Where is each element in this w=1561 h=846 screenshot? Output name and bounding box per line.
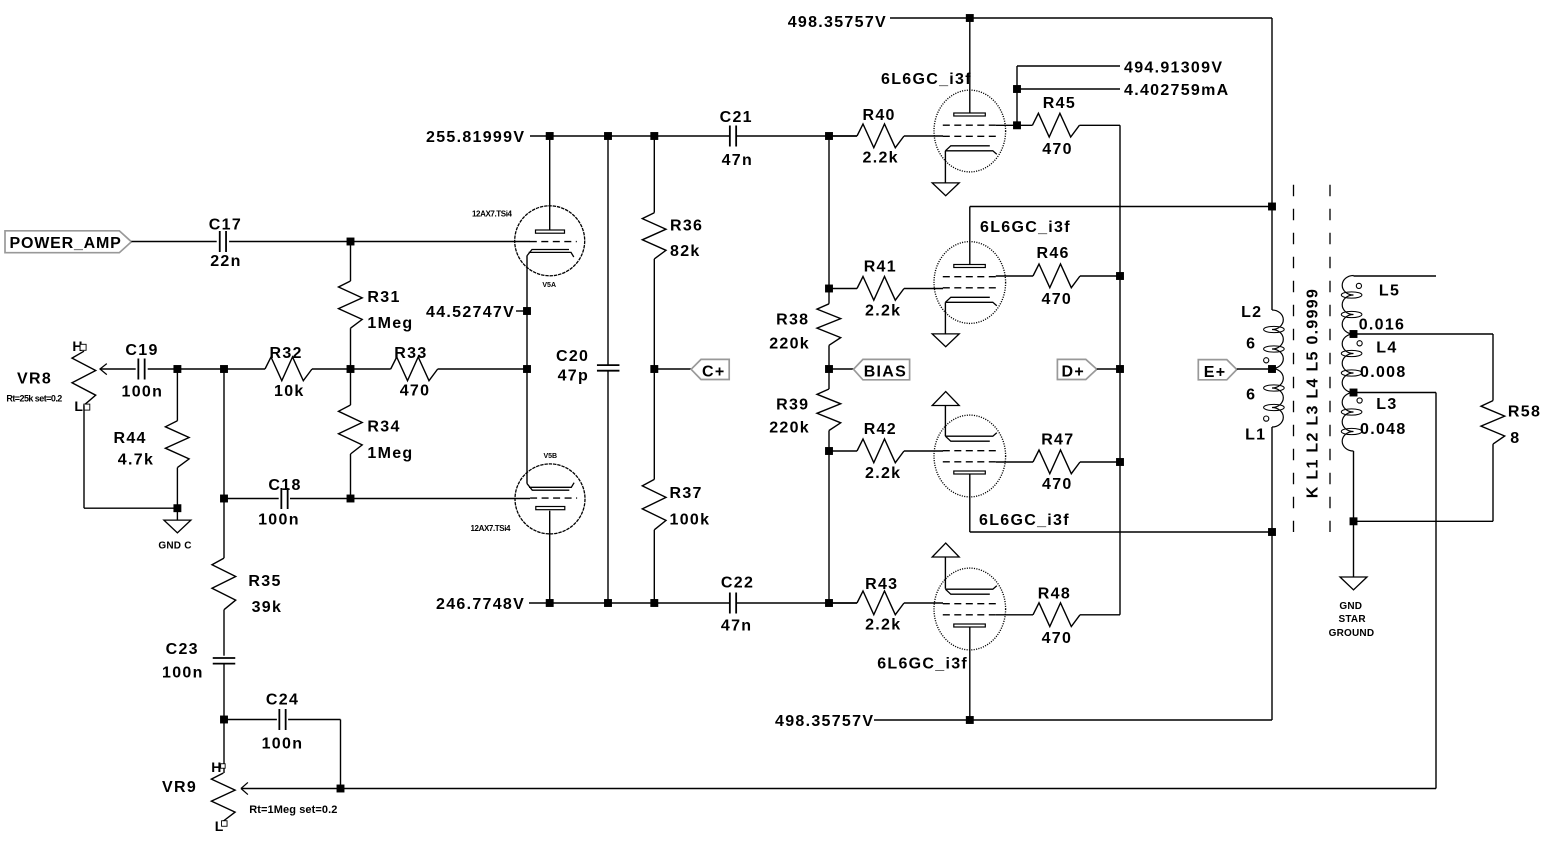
wire U1 plate lead: [969, 18, 971, 113]
inductor L5 secondary: [1342, 276, 1353, 335]
potentiometer VR9: [211, 773, 235, 821]
resistor R33: [391, 357, 438, 381]
svg-text:R46: R46: [1037, 245, 1070, 262]
wire C18 branch: [223, 369, 225, 499]
node C18 left junction: [220, 495, 228, 503]
tube U3 6L6GC_i3f: [934, 415, 1006, 497]
svg-text:R42: R42: [864, 421, 897, 438]
wire input to C17: [131, 241, 216, 243]
resistor R36: [642, 213, 666, 259]
wire V5B plate lead: [549, 511, 551, 603]
node grid drive A junction: [825, 132, 833, 140]
wire U4 screen to R48: [996, 614, 1033, 616]
wire VR8 wiper arrow: [100, 368, 136, 370]
wire 246V rail: [529, 602, 730, 604]
svg-text:R39: R39: [776, 397, 809, 414]
svg-text:C+: C+: [702, 364, 726, 381]
wire 44.52747V tap: [516, 310, 527, 312]
svg-text:R48: R48: [1038, 586, 1071, 603]
wire coupling boundary dashes: [1293, 185, 1295, 532]
svg-text:C17: C17: [209, 217, 242, 234]
wire R34 leads: [350, 369, 352, 405]
svg-text:C23: C23: [166, 641, 199, 658]
node primary-top junction: [1268, 203, 1276, 211]
svg-text:4.402759mA: 4.402759mA: [1124, 82, 1230, 99]
svg-text:V5A: V5A: [542, 282, 556, 289]
wire R32 to R33: [312, 368, 391, 370]
svg-text:VR9: VR9: [162, 779, 197, 796]
wire L4-L3 tap feedback: [1354, 392, 1437, 394]
svg-text:R36: R36: [670, 218, 703, 235]
wire C18 to V5B grid: [290, 498, 530, 500]
svg-text:C20: C20: [556, 348, 589, 365]
svg-text:220k: 220k: [769, 420, 810, 437]
wire U2 screen to R46: [996, 275, 1033, 277]
node mid-R31 junction: [347, 365, 355, 373]
svg-text:R58: R58: [1508, 404, 1541, 421]
resistor R45: [1032, 113, 1079, 137]
wire C17 to V5A grid: [229, 241, 530, 243]
capacitor C18: [280, 488, 282, 509]
wire E+ to center tap: [1237, 368, 1272, 370]
wire to BIAS flag: [829, 368, 854, 370]
wire feedback to VR9: [241, 788, 1436, 790]
resistor R41: [829, 288, 857, 290]
capacitor C19: [137, 359, 139, 380]
svg-text:6L6GC_i3f: 6L6GC_i3f: [877, 656, 968, 673]
wire C19 to R32: [148, 368, 265, 370]
svg-text:22n: 22n: [210, 253, 241, 270]
svg-text:2.2k: 2.2k: [865, 465, 901, 482]
node feedback-C24 junction: [337, 785, 345, 793]
wire right HT rail down to primary top: [1271, 18, 1273, 310]
wire L5 top stub: [1353, 275, 1355, 278]
svg-text:C24: C24: [266, 692, 299, 709]
svg-text:1Meg: 1Meg: [367, 315, 413, 332]
svg-text:BIAS: BIAS: [864, 364, 907, 381]
ground U3: [932, 392, 959, 406]
svg-text:H: H: [211, 759, 221, 775]
svg-text:R47: R47: [1041, 432, 1074, 449]
svg-text:GND: GND: [1339, 601, 1362, 612]
svg-text:220k: 220k: [769, 336, 810, 353]
svg-text:82k: 82k: [670, 243, 701, 260]
node R41 tap: [825, 285, 833, 293]
svg-text:494.91309V: 494.91309V: [1124, 60, 1223, 77]
node R42 tap: [825, 447, 833, 455]
svg-text:R38: R38: [776, 312, 809, 329]
wire U3 cathode to ground: [944, 406, 946, 437]
svg-text:470: 470: [400, 383, 431, 400]
node primary center tap: [1268, 365, 1276, 373]
svg-text:R40: R40: [863, 107, 896, 124]
wire 255V rail: [530, 135, 730, 137]
svg-text:R45: R45: [1043, 95, 1076, 112]
svg-text:6L6GC_i3f: 6L6GC_i3f: [980, 219, 1071, 236]
svg-text:R37: R37: [670, 485, 703, 502]
svg-text:255.81999V: 255.81999V: [426, 129, 525, 146]
svg-text:R34: R34: [367, 419, 400, 436]
svg-text:0.008: 0.008: [1360, 364, 1407, 381]
svg-text:Rt=25k set=0.2: Rt=25k set=0.2: [6, 394, 62, 404]
resistor R58: [1481, 401, 1505, 445]
ground U2: [932, 334, 959, 347]
tube U1 6L6GC_i3f: [934, 90, 1006, 172]
svg-text:498.35757V: 498.35757V: [788, 14, 887, 31]
svg-text:R33: R33: [394, 345, 427, 362]
svg-text:R43: R43: [865, 576, 898, 593]
wire ground lead: [176, 508, 178, 520]
svg-text:L5: L5: [1379, 282, 1400, 299]
wire cathode link V5A-V5B: [526, 256, 528, 484]
svg-text:100n: 100n: [162, 665, 204, 682]
wire to C+ flag: [654, 368, 691, 370]
wire U4 plate lead: [969, 627, 971, 720]
wire V5A plate lead: [549, 136, 551, 230]
node VR8 pins: [80, 344, 86, 350]
resistor R46: [1033, 264, 1080, 288]
node primary-bottom junction: [1268, 528, 1276, 536]
node top-rail junction: [966, 14, 974, 22]
node V5A plate junction: [546, 132, 554, 140]
svg-text:0.016: 0.016: [1359, 317, 1406, 334]
svg-text:V5B: V5B: [544, 453, 558, 460]
svg-text:2.2k: 2.2k: [865, 617, 901, 634]
node cathode-R33 junction: [523, 365, 531, 373]
node primary phase dots: [1264, 358, 1269, 363]
node C20 top junction: [604, 132, 612, 140]
svg-text:2.2k: 2.2k: [865, 303, 901, 320]
wire bias column: [828, 136, 830, 304]
node L4-L3 tap: [1350, 389, 1358, 397]
wire VR9 wiper arrow: [241, 782, 248, 788]
node V5B plate junction: [546, 599, 554, 607]
inductor L1 primary lower: [1272, 369, 1283, 428]
wire R35 leads: [223, 499, 225, 559]
svg-text:470: 470: [1042, 141, 1073, 158]
svg-text:39k: 39k: [252, 599, 283, 616]
node VR9 pins: [221, 764, 226, 769]
capacitor C20: [597, 364, 620, 366]
wire C23 to VR9: [223, 664, 225, 773]
flag BIAS: [854, 359, 910, 379]
svg-text:R44: R44: [114, 430, 147, 447]
svg-text:2.2k: 2.2k: [863, 150, 899, 167]
wire R44 leads: [176, 369, 178, 421]
tube U4 6L6GC_i3f: [934, 568, 1006, 650]
svg-text:K L1 L2 L3 L4 L5 0.9999: K L1 L2 L3 L4 L5 0.9999: [1304, 288, 1321, 498]
svg-text:L4: L4: [1376, 339, 1397, 356]
svg-text:100n: 100n: [258, 512, 300, 529]
node grid drive B junction: [825, 599, 833, 607]
svg-text:POWER_AMP: POWER_AMP: [10, 235, 122, 252]
resistor R47: [1033, 450, 1080, 474]
node rail-R47: [1116, 458, 1124, 466]
svg-text:0.048: 0.048: [1360, 421, 1407, 438]
ground U1: [932, 183, 959, 196]
svg-text:GROUND: GROUND: [1329, 628, 1375, 639]
svg-text:470: 470: [1042, 476, 1073, 493]
capacitor C17: [219, 231, 221, 252]
node L5-L4 tap: [1350, 330, 1358, 338]
wire R31 leads: [350, 242, 352, 282]
node sense tap: [1013, 85, 1021, 93]
capacitor C23: [213, 657, 236, 659]
node C18 column junction: [220, 365, 228, 373]
resistor R35: [212, 558, 236, 610]
svg-text:L2: L2: [1241, 304, 1262, 321]
svg-text:R41: R41: [864, 259, 897, 276]
tube V5A 12AX7: [515, 206, 585, 276]
node R36 top junction: [650, 132, 658, 140]
ground U4: [932, 543, 959, 557]
wire U1 cathode to ground: [944, 151, 946, 183]
capacitor C22: [729, 593, 731, 614]
wire VR8 low side: [83, 405, 85, 508]
wire 494V sense line: [1016, 66, 1018, 125]
wire right feedback rail: [1079, 124, 1120, 126]
wire R36 leads: [653, 136, 655, 213]
wire R58 bottom return: [1492, 444, 1494, 521]
ground GND C: [164, 520, 191, 533]
svg-text:8: 8: [1510, 430, 1520, 447]
svg-text:L: L: [74, 398, 83, 414]
node bottom-rail junction: [966, 716, 974, 724]
svg-text:C19: C19: [125, 342, 158, 359]
wire L3 bottom to star ground: [1353, 451, 1355, 577]
wire U3 screen to R47: [996, 461, 1033, 463]
flag C+: [691, 359, 729, 379]
resistor R34: [339, 405, 363, 454]
svg-text:47n: 47n: [722, 152, 753, 169]
wire U4 cathode to ground: [944, 557, 946, 589]
svg-text:12AX7.TSi4: 12AX7.TSi4: [471, 524, 512, 533]
wire R40 to U1 grid: [904, 135, 943, 137]
svg-text:6: 6: [1246, 335, 1256, 352]
node rail-D+: [1116, 365, 1124, 373]
svg-text:47n: 47n: [721, 618, 752, 635]
wire C24 to feedback: [288, 719, 340, 721]
inductor L4 secondary: [1342, 334, 1353, 393]
svg-text:47p: 47p: [558, 368, 589, 385]
svg-text:C18: C18: [268, 477, 301, 494]
wire U1 screen to R45: [996, 124, 1033, 126]
svg-text:GND C: GND C: [158, 541, 191, 552]
tube U2 6L6GC_i3f: [934, 242, 1006, 324]
node secondary phase dots: [1356, 283, 1361, 288]
node BIAS junction: [825, 365, 833, 373]
svg-text:6L6GC_i3f: 6L6GC_i3f: [881, 71, 972, 88]
wire primary lower rail: [1271, 427, 1273, 720]
resistor R39: [817, 389, 841, 431]
node R37 bottom junction: [650, 599, 658, 607]
svg-text:470: 470: [1042, 291, 1073, 308]
svg-text:100n: 100n: [262, 736, 304, 753]
inductor L3 secondary: [1342, 393, 1353, 452]
resistor R40: [829, 135, 857, 137]
ground star: [1340, 577, 1367, 590]
node U1 screen junction: [1013, 121, 1021, 129]
svg-text:C21: C21: [720, 109, 753, 126]
node C24 tap junction: [220, 716, 228, 724]
wire R43 to U4 grid: [904, 602, 943, 604]
capacitor C24: [278, 709, 280, 730]
resistor R44: [165, 421, 189, 468]
flag D+: [1057, 359, 1096, 379]
wire R33 to cathode link: [438, 368, 527, 370]
svg-text:4.7k: 4.7k: [118, 452, 154, 469]
svg-text:L3: L3: [1376, 396, 1397, 413]
svg-text:12AX7.TSi4: 12AX7.TSi4: [472, 210, 513, 219]
svg-text:10k: 10k: [274, 383, 305, 400]
wire top 498V rail: [890, 17, 1272, 19]
resistor R43: [829, 602, 857, 604]
resistor R37: [642, 479, 666, 529]
node grid-R31 junction: [347, 238, 355, 246]
wire primary bottom to U3 plate: [969, 474, 971, 532]
flag POWER_AMP input: [5, 231, 131, 253]
svg-text:6: 6: [1246, 387, 1256, 404]
wire U2 cathode to ground: [944, 302, 946, 334]
svg-text:R32: R32: [270, 345, 303, 362]
svg-text:L1: L1: [1245, 427, 1266, 444]
svg-text:R35: R35: [248, 573, 281, 590]
capacitor C21: [729, 126, 731, 147]
wire U2 plate to primary: [969, 207, 971, 265]
node R44 top junction: [173, 365, 181, 373]
node GND C junction: [173, 504, 181, 512]
svg-text:6L6GC_i3f: 6L6GC_i3f: [979, 512, 1070, 529]
svg-text:E+: E+: [1204, 364, 1227, 381]
svg-text:44.52747V: 44.52747V: [426, 304, 515, 321]
resistor R31: [339, 281, 363, 328]
node C20 bottom junction: [604, 599, 612, 607]
node V5B grid junction: [347, 495, 355, 503]
node V5A cathode junction: [523, 307, 531, 315]
svg-text:470: 470: [1042, 630, 1073, 647]
flag E+: [1198, 360, 1237, 380]
potentiometer VR8: [72, 351, 96, 405]
inductor L2 primary upper: [1272, 310, 1283, 369]
node C+ junction: [650, 365, 658, 373]
svg-text:100n: 100n: [122, 384, 164, 401]
svg-text:D+: D+: [1062, 364, 1086, 381]
svg-text:1Meg: 1Meg: [367, 445, 413, 462]
wire L5-L4 tap to R58: [1354, 333, 1494, 335]
svg-text:VR8: VR8: [17, 371, 52, 388]
resistor R48: [1033, 603, 1080, 627]
svg-text:498.35757V: 498.35757V: [775, 713, 874, 730]
svg-text:C22: C22: [721, 575, 754, 592]
svg-text:100k: 100k: [670, 512, 711, 529]
wire bottom 498V rail: [874, 719, 1272, 721]
node star ground junction: [1350, 517, 1358, 525]
svg-text:246.7748V: 246.7748V: [436, 596, 525, 613]
wire R37 leads: [653, 369, 655, 479]
wire C24 branch: [224, 719, 277, 721]
wire C20 column: [607, 136, 609, 365]
wire 4.4mA sense line: [1017, 88, 1120, 90]
resistor R42: [829, 450, 857, 452]
resistor R32: [265, 357, 312, 381]
svg-text:Rt=1Meg set=0.2: Rt=1Meg set=0.2: [249, 804, 337, 816]
svg-text:R31: R31: [367, 289, 400, 306]
node rail-R46: [1116, 272, 1124, 280]
wire D+ to rail: [1097, 368, 1120, 370]
svg-text:STAR: STAR: [1339, 614, 1367, 625]
tube V5B 12AX7: [515, 464, 585, 534]
resistor R38: [817, 304, 841, 346]
